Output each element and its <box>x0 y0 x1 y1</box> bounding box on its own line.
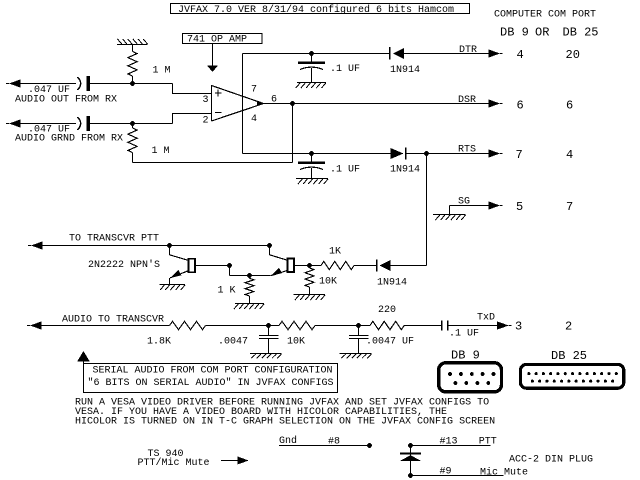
svg-text:7: 7 <box>251 85 257 96</box>
svg-text:OR: OR <box>535 25 549 39</box>
svg-text:1.8K: 1.8K <box>147 337 171 348</box>
svg-text:10K: 10K <box>319 276 337 287</box>
svg-text:1N914: 1N914 <box>377 277 407 288</box>
svg-text:DTR: DTR <box>459 45 477 56</box>
svg-text:5: 5 <box>516 200 523 214</box>
svg-text:.1 UF: .1 UF <box>330 64 360 75</box>
svg-text:3: 3 <box>515 320 522 334</box>
svg-text:1K: 1K <box>329 246 341 257</box>
svg-text:4: 4 <box>517 48 524 62</box>
svg-text:SERIAL AUDIO FROM COM PORT CON: SERIAL AUDIO FROM COM PORT CONFIGURATION <box>93 365 333 376</box>
svg-text:6: 6 <box>517 99 524 113</box>
svg-text:1N914: 1N914 <box>390 65 420 76</box>
svg-text:AUDIO OUT FROM RX: AUDIO OUT FROM RX <box>15 95 117 106</box>
svg-text:Mic Mute: Mic Mute <box>480 466 528 478</box>
svg-text:2N2222 NPN'S: 2N2222 NPN'S <box>88 259 160 271</box>
svg-text:JVFAX 7.0 VER 8/31/94 configu: JVFAX 7.0 VER 8/31/94 configured 6 bits … <box>178 4 454 16</box>
svg-text:PTT: PTT <box>479 436 497 447</box>
svg-text:TO TRANSCVR PTT: TO TRANSCVR PTT <box>69 233 159 244</box>
svg-text:1N914: 1N914 <box>390 164 420 175</box>
svg-text:DB 9: DB 9 <box>500 25 529 39</box>
svg-text:DB 25: DB 25 <box>563 25 599 39</box>
svg-text:PTT/Mic Mute: PTT/Mic Mute <box>138 457 210 469</box>
svg-text:ACC-2 DIN PLUG: ACC-2 DIN PLUG <box>509 454 593 465</box>
svg-text:COMPUTER COM PORT: COMPUTER COM PORT <box>494 9 596 20</box>
svg-text:TxD: TxD <box>477 313 495 324</box>
svg-text:.1 UF: .1 UF <box>449 329 479 340</box>
svg-text:7: 7 <box>516 148 523 162</box>
svg-text:#9: #9 <box>440 466 452 477</box>
svg-text:6: 6 <box>566 99 573 113</box>
svg-text:AUDIO TO TRANSCVR: AUDIO TO TRANSCVR <box>62 314 164 325</box>
svg-text:20: 20 <box>566 48 580 62</box>
svg-text:10K: 10K <box>287 337 305 348</box>
svg-text:DB 9: DB 9 <box>451 348 480 362</box>
svg-text:1 K: 1 K <box>218 285 236 296</box>
svg-text:1 M: 1 M <box>152 146 170 157</box>
svg-text:.0047: .0047 <box>218 337 248 348</box>
svg-text:7: 7 <box>566 200 573 214</box>
svg-text:4: 4 <box>251 114 257 125</box>
svg-text:1 M: 1 M <box>153 66 171 77</box>
svg-text:SG: SG <box>458 196 470 207</box>
svg-text:"6 BITS ON SERIAL AUDIO" IN JV: "6 BITS ON SERIAL AUDIO" IN JVFAX CONFIG… <box>88 377 334 389</box>
svg-text:.1 UF: .1 UF <box>330 164 360 175</box>
svg-text:DSR: DSR <box>458 95 476 106</box>
svg-text:220: 220 <box>378 305 396 316</box>
svg-text:741 OP AMP: 741 OP AMP <box>187 35 247 46</box>
svg-text:2: 2 <box>565 320 572 334</box>
svg-text:RTS: RTS <box>458 144 476 155</box>
svg-text:.0047 UF: .0047 UF <box>366 337 414 348</box>
svg-text:3: 3 <box>203 95 209 106</box>
svg-text:Gnd: Gnd <box>279 435 297 447</box>
svg-text:DB 25: DB 25 <box>551 349 587 363</box>
svg-text:4: 4 <box>566 148 573 162</box>
svg-text:AUDIO GRND FROM RX: AUDIO GRND FROM RX <box>15 134 123 145</box>
svg-text:2: 2 <box>203 115 209 126</box>
svg-text:#13: #13 <box>440 436 458 447</box>
svg-text:#8: #8 <box>328 436 340 447</box>
svg-text:HICOLOR IS TURNED ON IN T-C GR: HICOLOR IS TURNED ON IN T-C GRAPH SELECT… <box>75 417 495 428</box>
